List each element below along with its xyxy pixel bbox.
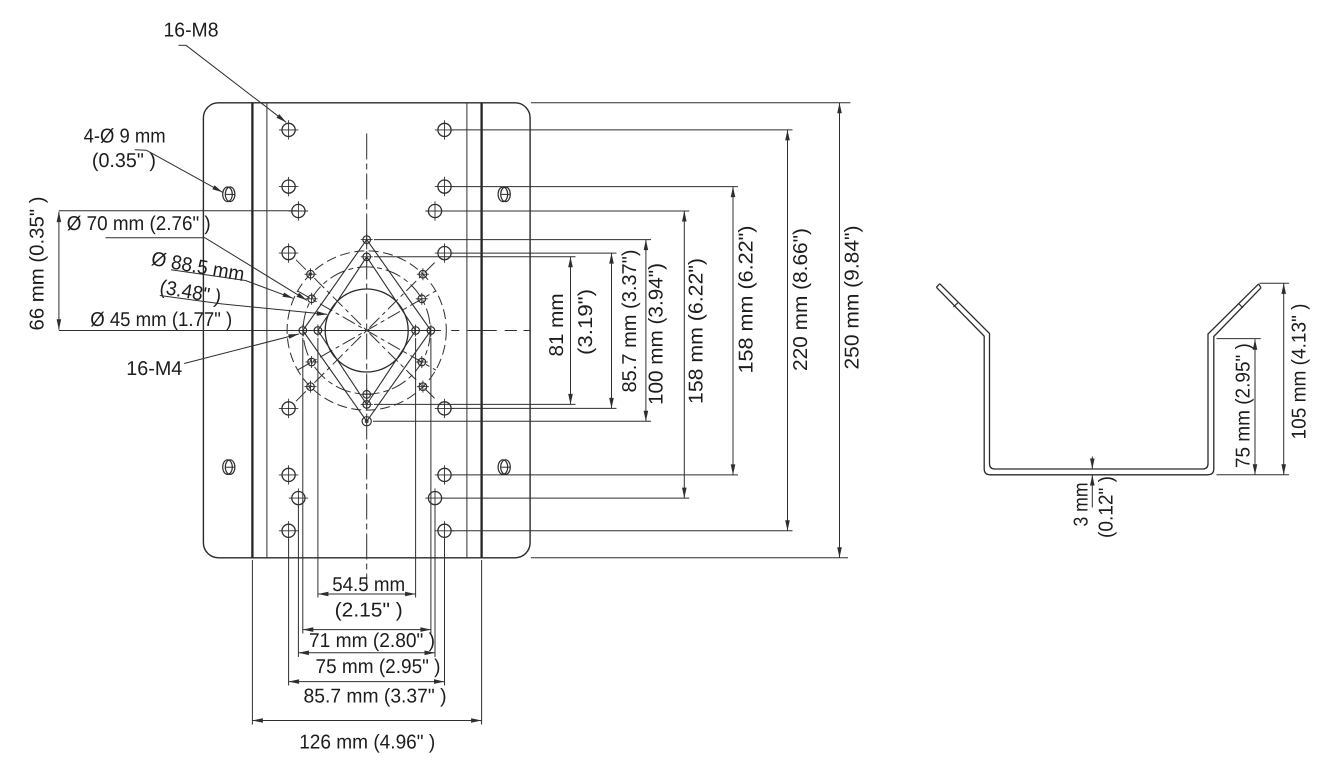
extension lines for 71mm <box>302 338 304 634</box>
M8 hole 16 <box>435 521 454 540</box>
M4 hole 10 <box>417 268 429 280</box>
svg-text:(2.15" ): (2.15" ) <box>335 600 403 622</box>
M4 hole 1 <box>361 234 373 246</box>
dimension 75mm side extensions <box>1217 338 1261 340</box>
dimension 85.7mm bottom line <box>289 681 445 683</box>
svg-text:Ø 45 mm (1.77" ): Ø 45 mm (1.77" ) <box>90 309 232 331</box>
M4 hole 9 <box>305 268 317 280</box>
M8 hole 6 <box>435 177 454 196</box>
M8 hole 1 <box>279 120 298 139</box>
right flare tick <box>1239 304 1243 308</box>
svg-text:75 mm (2.95" ): 75 mm (2.95" ) <box>1232 343 1254 468</box>
svg-text:105 mm (4.13" ): 105 mm (4.13" ) <box>1288 304 1310 440</box>
corner slot 4 (4-&#216;9) <box>498 460 510 475</box>
svg-text:16-M8: 16-M8 <box>164 20 219 42</box>
diagonal centerline 30deg C <box>298 291 436 370</box>
bolt circle &#216;88.5 (dashed) <box>287 251 446 410</box>
horizontal centerline solid part <box>59 330 441 332</box>
right tip end cap <box>1259 284 1261 288</box>
dimension 158mm B line <box>732 187 734 475</box>
corner slot 2 (4-&#216;9) <box>498 187 510 202</box>
dimension 100mm extensions <box>374 239 651 241</box>
M8 hole 8 <box>435 243 454 262</box>
svg-text:3 mm: 3 mm <box>1070 483 1092 527</box>
svg-text:158 mm (6.22"): 158 mm (6.22") <box>736 226 758 374</box>
diagonal centerline 45deg B <box>296 260 437 401</box>
dimension 126mm line <box>252 720 481 722</box>
svg-text:126 mm (4.96" ): 126 mm (4.96" ) <box>299 731 435 753</box>
dimension 3mm line <box>1091 457 1093 470</box>
M8 hole 7 <box>425 201 444 220</box>
leader 16-M4 <box>184 334 299 364</box>
dimension 100mm line <box>645 240 647 422</box>
M4 hole 15 <box>306 356 318 368</box>
svg-text:71 mm (2.80" ): 71 mm (2.80" ) <box>309 630 435 652</box>
left fold line (thick) <box>251 103 253 558</box>
leader 16-M8 <box>179 44 187 46</box>
M4 hole 6 <box>312 325 324 337</box>
M8 hole 9 <box>279 399 298 418</box>
M8 hole 4 <box>279 243 298 262</box>
bracket profile outer contour (side view) <box>936 287 1261 475</box>
extension lines for 85.7mm bottom <box>288 539 290 686</box>
right fold line (thick) <box>480 103 482 558</box>
small ring hole below pattern <box>362 417 371 426</box>
M4 hole 12 <box>417 381 429 393</box>
M8 hole 12 <box>279 521 298 540</box>
M4 hole 16 <box>416 356 428 368</box>
svg-text:75 mm (2.95" ): 75 mm (2.95" ) <box>316 656 441 678</box>
extension lines for 54.5mm <box>317 338 319 598</box>
svg-text:(0.12" ): (0.12" ) <box>1096 476 1118 538</box>
dimension 105mm extensions <box>1260 282 1290 284</box>
svg-text:66 mm (0.35" ): 66 mm (0.35" ) <box>27 197 49 331</box>
leader 3.48in <box>160 296 222 304</box>
horizontal centerline dashed part <box>451 330 530 332</box>
extension lines for 75mm <box>297 506 299 657</box>
M8 hole 2 <box>279 177 298 196</box>
svg-text:(3.19"): (3.19") <box>575 289 597 355</box>
M8 hole 14 <box>435 465 454 484</box>
bolt circle &#216;70 (dash-dot) <box>303 267 430 394</box>
bracket profile inner contour (side view) <box>940 284 1259 469</box>
left inner edge line <box>266 103 268 558</box>
dimension 75mm line <box>298 652 435 654</box>
M4 hole 14 <box>416 293 428 305</box>
leader &#216;70mm <box>106 237 206 239</box>
diagonal centerline 30deg D <box>298 291 436 370</box>
M4 hole 5 <box>297 325 309 337</box>
dimension 85.7mm right extensions <box>452 252 617 254</box>
dimension 158mm A line <box>683 211 685 498</box>
M8 hole 13 <box>435 399 454 418</box>
svg-text:100 mm (3.94"): 100 mm (3.94") <box>645 263 667 405</box>
dimension 75mm side line <box>1254 339 1256 475</box>
corner slot 3 (4-&#216;9) <box>223 460 235 475</box>
M8 hole 15 <box>425 488 444 507</box>
extension line row3 left <box>59 210 297 212</box>
svg-text:(0.35" ): (0.35" ) <box>92 150 156 172</box>
dimension 85.7mm right line <box>611 253 613 408</box>
svg-text:250 mm (9.84"): 250 mm (9.84") <box>841 226 863 370</box>
mounting plate outline (front view) <box>203 103 530 558</box>
M4 hole 7 <box>410 325 422 337</box>
svg-text:Ø 70 mm (2.76" ): Ø 70 mm (2.76" ) <box>67 213 211 235</box>
dimension 81mm line <box>570 257 572 405</box>
inner rhombus pattern <box>318 257 416 405</box>
dimension 66mm line <box>58 212 60 330</box>
M4 hole 11 <box>305 381 317 393</box>
leader &#216;88.5mm <box>171 270 246 281</box>
svg-text:81 mm: 81 mm <box>546 294 568 357</box>
M8 hole 5 <box>435 120 454 139</box>
right inner edge line <box>466 103 468 558</box>
dimension 81mm extensions <box>374 256 576 258</box>
svg-text:158 mm (6.22"): 158 mm (6.22") <box>685 258 707 404</box>
dimension 250mm extensions <box>531 102 850 104</box>
M4 hole 8 <box>425 325 437 337</box>
dimension 158mm B extensions <box>452 186 739 188</box>
vertical centerline <box>366 134 368 586</box>
dimension 250mm line <box>839 103 841 558</box>
svg-text:85.7 mm (3.37" ): 85.7 mm (3.37" ) <box>304 686 447 708</box>
dimension 71mm line <box>303 629 431 631</box>
extension lines for 126mm <box>251 560 253 725</box>
M4 hole 2 <box>361 251 373 263</box>
dimension 220mm line <box>787 130 789 531</box>
dimension 220mm extensions <box>452 129 793 131</box>
corner slot 1 (4-&#216;9) <box>223 187 235 202</box>
outer rhombus pattern <box>303 240 431 422</box>
M4 hole 4 <box>361 398 373 410</box>
dimension 54.5mm line <box>318 593 416 595</box>
central hole circle &#216;45 <box>325 289 408 372</box>
M8 hole 11 <box>289 488 308 507</box>
M4 hole 13 <box>306 293 318 305</box>
left flare tick <box>953 303 957 307</box>
M4 hole 3 <box>361 388 373 400</box>
dimension 105mm line <box>1283 283 1285 474</box>
dimension 158mm A extensions <box>442 210 689 212</box>
left tip end cap <box>936 284 939 288</box>
svg-text:85.7 mm (3.37"): 85.7 mm (3.37") <box>619 250 641 393</box>
M8 hole 3 <box>289 201 308 220</box>
svg-text:4-Ø 9 mm: 4-Ø 9 mm <box>84 125 166 147</box>
M8 hole 10 <box>279 465 298 484</box>
diagonal centerline 45deg A <box>296 260 437 401</box>
leader 4-&#216;9mm <box>135 149 147 152</box>
svg-text:16-M4: 16-M4 <box>126 358 182 380</box>
svg-text:220 mm (8.66"): 220 mm (8.66") <box>790 228 812 371</box>
svg-text:54.5 mm: 54.5 mm <box>332 574 405 596</box>
